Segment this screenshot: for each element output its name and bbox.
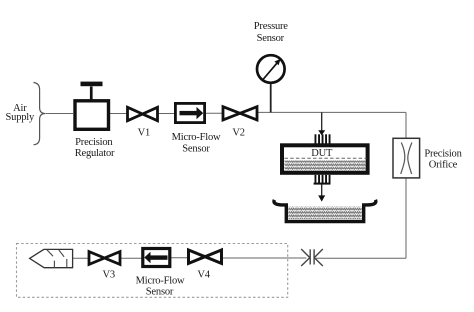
svg-text:Micro-Flow: Micro-Flow — [172, 132, 221, 143]
svg-text:V1: V1 — [138, 127, 150, 138]
svg-text:Sensor: Sensor — [257, 33, 285, 44]
svg-text:Micro-Flow: Micro-Flow — [136, 276, 185, 287]
svg-text:Orifice: Orifice — [429, 160, 458, 171]
svg-text:Regulator: Regulator — [75, 148, 115, 159]
svg-text:V2: V2 — [232, 127, 244, 138]
svg-text:Supply: Supply — [6, 112, 36, 123]
svg-text:Pressure: Pressure — [254, 21, 289, 32]
svg-text:Precision: Precision — [75, 137, 113, 148]
svg-text:V3: V3 — [102, 269, 114, 280]
svg-text:V4: V4 — [197, 269, 210, 280]
svg-text:Sensor: Sensor — [182, 144, 210, 155]
svg-text:DUT: DUT — [311, 148, 333, 159]
svg-text:Precision: Precision — [424, 148, 462, 159]
svg-text:Sensor: Sensor — [146, 287, 174, 298]
